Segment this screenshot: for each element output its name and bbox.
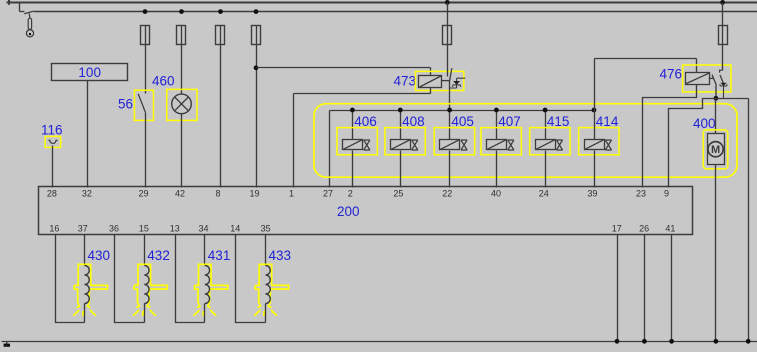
svg-text:27: 27: [323, 189, 333, 199]
junction fuse 5 on 30-rail: [445, 0, 450, 5]
svg-text:41: 41: [665, 224, 675, 234]
svg-text:13: 13: [170, 224, 180, 234]
relay 473: [415, 68, 465, 90]
relay 476: [683, 65, 731, 98]
svg-text:414: 414: [596, 114, 619, 129]
svg-text:16: 16: [49, 224, 59, 234]
solenoid valve 407: [481, 128, 521, 155]
svg-text:56: 56: [118, 97, 133, 112]
injector 431 circuit loop: [176, 235, 205, 323]
svg-text:34: 34: [198, 224, 208, 234]
svg-text:432: 432: [147, 248, 170, 263]
junction bus / valve 405: [447, 108, 452, 113]
ground symbol: [4, 341, 10, 347]
svg-text:24: 24: [539, 189, 549, 199]
solenoid valve 414: [579, 128, 619, 155]
injector 432 circuit loop: [115, 235, 145, 323]
wire solenoid supply bus: [330, 110, 595, 112]
solenoid valve 415: [530, 128, 570, 155]
wire down to relay 476 coil top: [696, 59, 698, 73]
svg-text:408: 408: [402, 114, 425, 129]
fuse F2: [177, 26, 186, 45]
svg-text:22: 22: [442, 189, 452, 199]
wire fuse 2 to lamp 460: [181, 45, 183, 95]
svg-text:17: 17: [612, 224, 622, 234]
wire fuse 4 to pin 19: [256, 45, 258, 188]
injector 432 yellow icon: [134, 264, 167, 307]
wire valve 407 to pin 40: [496, 151, 498, 188]
junction pin 26 ground: [642, 339, 647, 344]
svg-text:35: 35: [261, 224, 271, 234]
fuse F4: [252, 26, 261, 45]
wire bus to valve 415: [545, 111, 547, 140]
svg-text:M: M: [711, 144, 720, 156]
wire branch to relay 473 coil: [257, 67, 431, 69]
wire 116 to pin 28: [52, 146, 54, 188]
svg-text:8: 8: [215, 189, 220, 199]
svg-text:9: 9: [664, 189, 669, 199]
wire valve 405 to pin 22: [449, 151, 451, 188]
fuse F1: [141, 26, 150, 45]
wire pin to injector 432 coil: [144, 235, 146, 266]
wire node to motor 400: [715, 99, 717, 134]
wire relay 473 coil bottom: [430, 88, 432, 94]
injector 432 coil: [144, 266, 149, 304]
junction fuse 6 on 30-rail: [720, 0, 725, 5]
svg-text:36: 36: [109, 224, 119, 234]
wire right drop to ground rail: [748, 99, 750, 342]
wire motor 400 to ground rail: [715, 165, 717, 342]
junction fuse 4 on 15-rail: [254, 9, 259, 14]
wire bus to valve 406: [352, 111, 354, 140]
control unit 200: [39, 187, 693, 235]
wire pin 26 to ground rail: [644, 235, 646, 342]
junction bus / valve 408: [398, 108, 403, 113]
svg-text:42: 42: [175, 189, 185, 199]
wire down to relay 473 coil top: [430, 68, 432, 76]
junction motor feed node: [714, 96, 719, 101]
lamp 460: [167, 89, 197, 120]
junction bus / valve 415: [543, 108, 548, 113]
junction bus / valve 407: [494, 108, 499, 113]
wire bus to pin 27: [329, 111, 331, 188]
injector 433 yellow icon: [255, 264, 288, 307]
svg-text:431: 431: [208, 248, 231, 263]
svg-text:14: 14: [230, 224, 240, 234]
wire injector 432 coil bottom: [144, 304, 146, 323]
wire valve 415 to pin 24: [545, 151, 547, 188]
wire valve 414 node up: [594, 59, 596, 111]
svg-text:415: 415: [547, 114, 570, 129]
svg-text:19: 19: [249, 189, 259, 199]
switch 56: [134, 90, 153, 120]
injector 430 yellow icon: [74, 264, 107, 307]
wire node to right drop: [716, 98, 749, 100]
svg-text:476: 476: [659, 67, 682, 82]
junction fuse 3 on 15-rail: [218, 9, 223, 14]
svg-text:116: 116: [41, 122, 63, 137]
solenoid valve 405: [434, 128, 474, 155]
svg-text:37: 37: [78, 224, 88, 234]
fuse F3: [216, 26, 225, 45]
wire pin to injector 430 coil: [84, 235, 86, 266]
wire fuse 5 to relay 473 contact: [447, 45, 449, 77]
injector 430 circuit loop: [56, 235, 85, 323]
svg-text:25: 25: [393, 189, 403, 199]
wire injector 430 coil bottom: [84, 304, 86, 323]
wire injector 431 coil bottom: [204, 304, 206, 323]
wire valve 414 to pin 39: [594, 151, 596, 188]
wire pin to injector 433 coil: [265, 235, 267, 266]
valve group outline: [314, 104, 737, 178]
svg-text:200: 200: [337, 204, 360, 219]
wire junction down to valve 414: [594, 111, 596, 140]
wire 30 bus (battery +) top rail: [12, 2, 757, 4]
svg-text:430: 430: [88, 248, 111, 263]
wire pin 23 to relay 476 coil: [643, 85, 697, 188]
wire bus to valve 408: [400, 111, 402, 140]
svg-text:15: 15: [139, 224, 149, 234]
wire bus to valve 407: [496, 111, 498, 140]
wire pin 17 to ground rail: [617, 235, 619, 342]
svg-text:405: 405: [451, 114, 474, 129]
ignition key symbol: [26, 14, 33, 37]
junction fuse 4 branch: [254, 65, 259, 70]
motor 400: [703, 130, 728, 169]
wire fuse 6 to relay 476 contact: [722, 45, 724, 71]
wire fuse 6 feed (crosses 15-rail): [722, 3, 724, 26]
svg-text:32: 32: [82, 189, 92, 199]
relay box 100: [52, 64, 128, 81]
injector 430 spray: [74, 310, 96, 316]
injector 433 coil: [266, 266, 271, 304]
svg-text:40: 40: [491, 189, 501, 199]
wire injector 433 coil bottom: [265, 304, 267, 323]
wire fuse 1 to switch 56: [145, 45, 147, 94]
svg-text:23: 23: [636, 189, 646, 199]
solenoid valve 408: [385, 128, 425, 155]
wire pin 9 to motor node: [669, 99, 716, 188]
svg-text:100: 100: [78, 65, 101, 80]
wire fuse 3 to pin 8: [220, 45, 222, 188]
ignition switch blade: [24, 11, 33, 14]
junction motor ground: [714, 339, 719, 344]
svg-text:407: 407: [498, 114, 521, 129]
wire relay 473 output through junction to valve 405: [449, 81, 451, 140]
svg-text:433: 433: [269, 248, 292, 263]
injector 431 coil: [205, 266, 210, 304]
wire pin to injector 431 coil: [204, 235, 206, 266]
svg-text:400: 400: [693, 116, 716, 131]
wire down to pin 1: [293, 94, 295, 188]
fuse F6: [719, 26, 728, 45]
wire drop to ignition switch: [19, 3, 21, 12]
injector 430 coil: [85, 266, 90, 304]
fuse F5: [443, 26, 452, 45]
solenoid valve 406: [337, 128, 377, 155]
wire switch 56 to pin 29: [145, 113, 147, 188]
sensor 116: [45, 136, 60, 147]
junction bus / valve 406: [350, 108, 355, 113]
junction bus end / valve 414: [592, 108, 597, 113]
battery + terminal: [7, 0, 12, 5]
svg-text:460: 460: [152, 73, 175, 88]
injector 431 yellow icon: [195, 264, 228, 307]
junction fuse 1 on 15-rail: [143, 9, 148, 14]
injector 433 circuit loop: [236, 235, 266, 323]
svg-text:28: 28: [47, 189, 57, 199]
wire valve 406 to pin 2: [352, 151, 354, 188]
injector 432 spray: [133, 310, 155, 316]
wire fuse 5 feed (crosses 15-rail): [447, 3, 449, 26]
wire 31 ground rail: [2, 341, 757, 343]
junction right drop ground: [746, 339, 751, 344]
injector 433 spray: [254, 310, 276, 316]
svg-text:1: 1: [289, 189, 294, 199]
wire ignition feed stub: [20, 11, 25, 13]
svg-text:26: 26: [639, 224, 649, 234]
junction pin 41 ground: [669, 339, 674, 344]
wire to relay 476 coil horizontal: [595, 58, 697, 60]
svg-text:29: 29: [138, 189, 148, 199]
svg-text:473: 473: [393, 74, 416, 89]
svg-text:406: 406: [354, 114, 377, 129]
wire 15 bus (ignition +) second rail: [34, 11, 757, 13]
wire 100 to pin 32: [87, 81, 89, 188]
junction fuse 2 on 15-rail: [179, 9, 184, 14]
junction pin 17 ground: [615, 339, 620, 344]
wire relay 473 coil to pin 1 horizontal: [294, 93, 431, 95]
wire pin 41 to ground rail: [671, 235, 673, 342]
svg-text:39: 39: [587, 189, 597, 199]
svg-text:2: 2: [348, 189, 353, 199]
wire valve 408 to pin 25: [400, 151, 402, 188]
wire lamp 460 to pin 42: [181, 114, 183, 188]
injector 431 spray: [194, 310, 216, 316]
